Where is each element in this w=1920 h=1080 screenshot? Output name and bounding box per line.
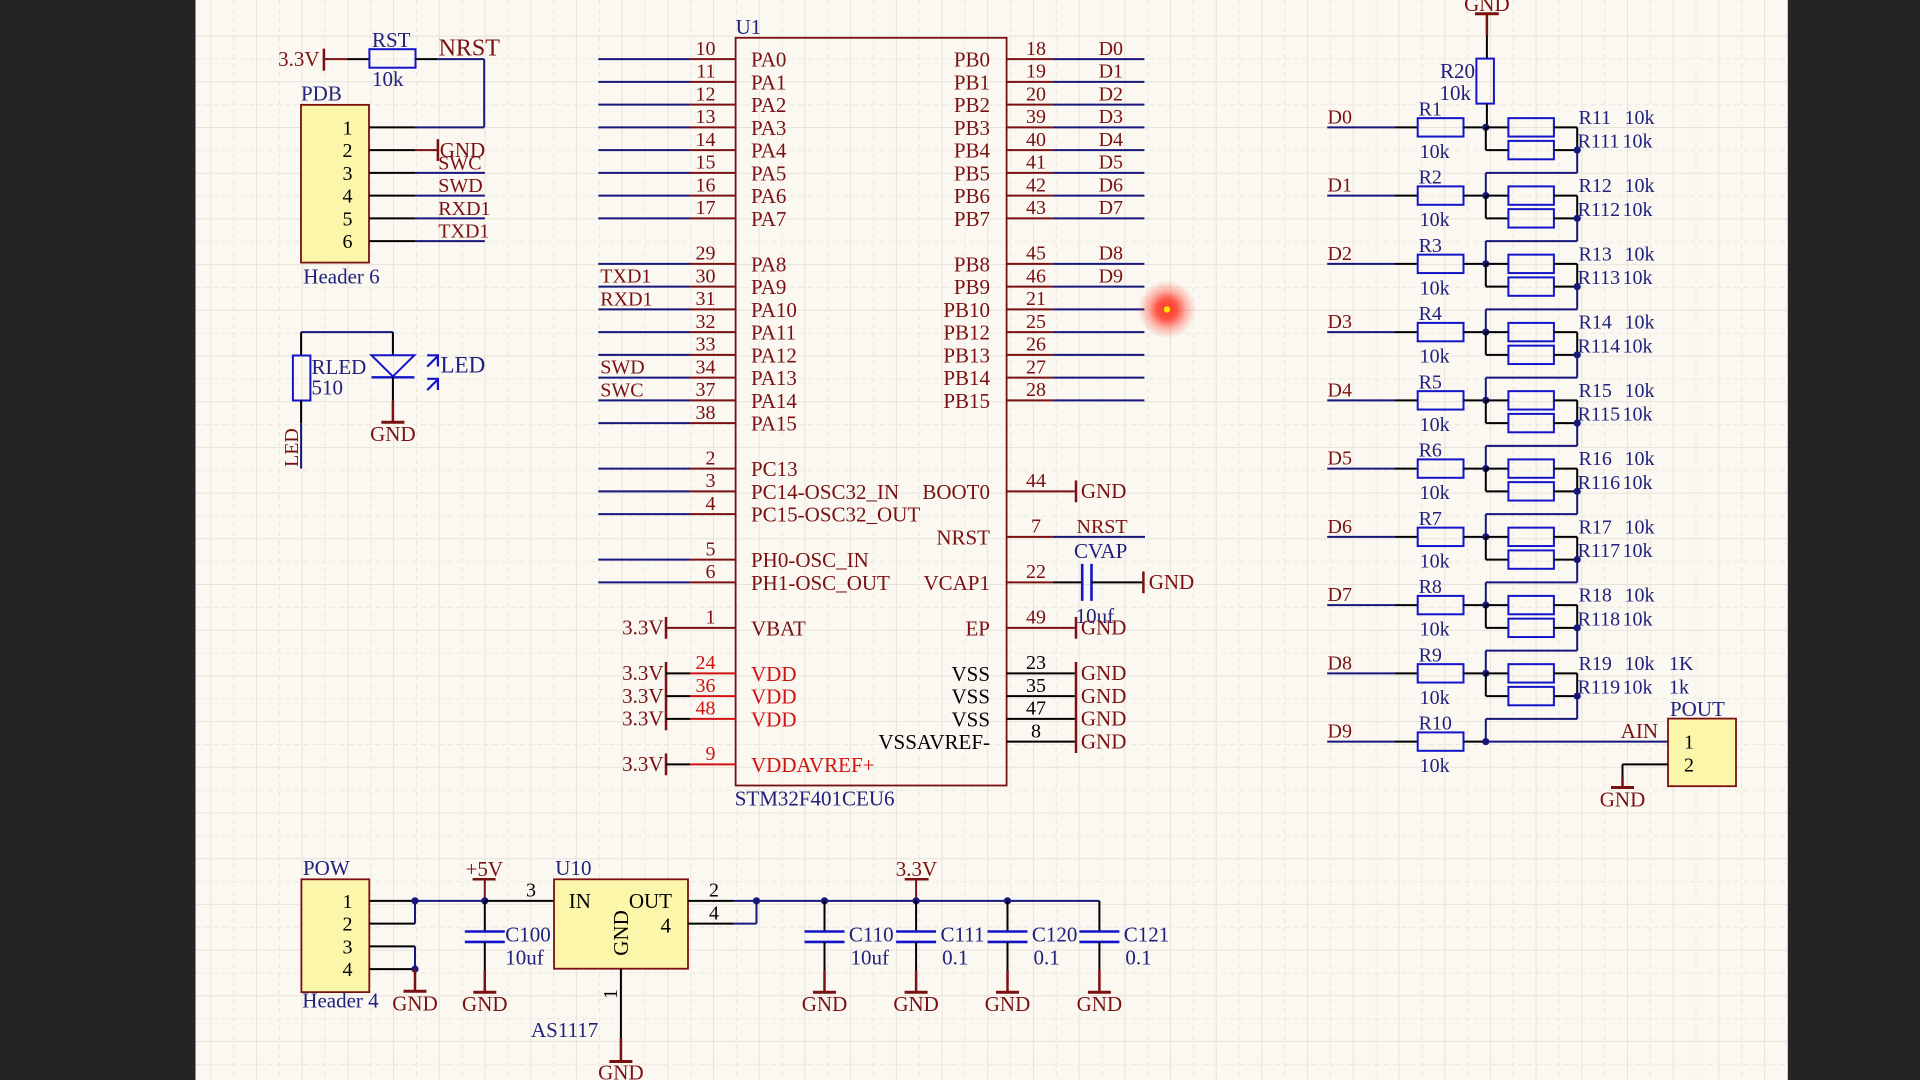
- svg-text:18: 18: [1026, 38, 1046, 60]
- wire R5 to junction: [1464, 399, 1486, 401]
- svg-text:3.3V: 3.3V: [622, 707, 663, 731]
- svg-text:10k: 10k: [1623, 608, 1653, 630]
- junction node D5: [1482, 465, 1489, 472]
- U1 pin 14 (PA4): [690, 129, 787, 163]
- U1 pin 6 (PH1-OSC_OUT): [690, 561, 890, 595]
- PDB pin 1: [343, 117, 416, 139]
- wire to U1 left pin: [598, 149, 690, 151]
- wire to U1 left pin: [598, 377, 690, 379]
- svg-text:D9: D9: [1328, 721, 1352, 743]
- resistor R118 10k: [1508, 619, 1554, 637]
- svg-text:3: 3: [343, 163, 353, 185]
- wire D6 to R7: [1327, 536, 1418, 538]
- label R119 10k: [1578, 677, 1690, 699]
- U1 pin 17 (PA7): [690, 197, 786, 231]
- svg-text:PH1-OSC_OUT: PH1-OSC_OUT: [751, 571, 890, 595]
- wire R9 to junction: [1464, 672, 1486, 674]
- connector PDB Header 6 body: [301, 82, 380, 289]
- svg-text:C111: C111: [941, 923, 985, 947]
- svg-text:GND: GND: [462, 992, 508, 1016]
- wire to U1 left pin: [598, 354, 690, 356]
- capacitor C100 10uf: [465, 901, 551, 970]
- connector POUT body: [1668, 697, 1736, 786]
- svg-text:R4: R4: [1419, 303, 1442, 325]
- label R16 10k: [1579, 448, 1655, 470]
- svg-text:STM32F401CEU6: STM32F401CEU6: [735, 787, 895, 811]
- svg-text:RXD1: RXD1: [438, 198, 490, 220]
- net label D9: [1099, 265, 1123, 287]
- junction node D0: [1482, 124, 1489, 131]
- resistor R9 10k: [1418, 644, 1464, 709]
- svg-text:+5V: +5V: [466, 857, 504, 881]
- svg-text:GND: GND: [1081, 729, 1127, 753]
- wire D3 to R4: [1327, 331, 1418, 333]
- svg-text:D7: D7: [1328, 584, 1352, 606]
- svg-text:PC13: PC13: [751, 457, 798, 481]
- svg-text:C120: C120: [1032, 923, 1078, 947]
- wire R20 to ladder: [1486, 104, 1488, 128]
- U1 pin 30 (PA9): [690, 265, 786, 299]
- svg-text:1: 1: [343, 117, 353, 139]
- svg-text:10k: 10k: [1420, 619, 1450, 641]
- junction node D6: [1482, 533, 1489, 540]
- junction node D3: [1482, 329, 1489, 336]
- GND port at CVAP: [1092, 570, 1195, 594]
- svg-text:PB12: PB12: [943, 321, 990, 345]
- svg-text:0.1: 0.1: [1125, 946, 1151, 970]
- U1 pin 11 (PA1): [690, 61, 786, 95]
- svg-text:PH0-OSC_IN: PH0-OSC_IN: [751, 548, 869, 572]
- svg-text:10k: 10k: [1623, 199, 1653, 221]
- wire GND to R20: [1486, 36, 1488, 59]
- U1 pin 40 (PB4): [954, 129, 1145, 163]
- svg-text:12: 12: [696, 83, 716, 105]
- svg-text:19: 19: [1026, 61, 1046, 83]
- ground at U10: [598, 1038, 644, 1080]
- U1 pin 36 (VDD): [690, 675, 797, 709]
- svg-text:10k: 10k: [1623, 267, 1653, 289]
- wire AIN (D9 junction to POUT): [1486, 741, 1668, 743]
- GND port at PDB pin 2: [415, 138, 485, 162]
- net label D8: [1099, 243, 1123, 265]
- error highlight marker: [1138, 280, 1196, 338]
- svg-text:35: 35: [1026, 675, 1046, 697]
- svg-text:VSS: VSS: [951, 685, 990, 709]
- svg-text:SWD: SWD: [600, 357, 644, 379]
- junction at C120: [1004, 897, 1011, 904]
- U1 pin 21 (PB10): [943, 288, 1144, 322]
- resistor R2 10k: [1418, 167, 1464, 232]
- svg-text:POUT: POUT: [1670, 697, 1725, 721]
- junction node 2R row 4: [1574, 420, 1581, 427]
- svg-text:PA13: PA13: [751, 366, 797, 390]
- svg-text:0.1: 0.1: [942, 946, 968, 970]
- svg-text:PA0: PA0: [751, 48, 786, 72]
- svg-text:AS1117: AS1117: [531, 1018, 598, 1042]
- power port 3.3V: [622, 616, 690, 640]
- U1 pin 41 (PB5): [954, 152, 1145, 186]
- wire 2R right links row 3: [1554, 332, 1577, 355]
- svg-text:PB1: PB1: [954, 70, 990, 94]
- wire PDB (RXD1): [415, 217, 485, 219]
- svg-text:PB13: PB13: [943, 343, 990, 367]
- svg-text:11: 11: [696, 61, 715, 83]
- svg-text:29: 29: [696, 243, 716, 265]
- svg-text:16: 16: [696, 174, 716, 196]
- net label AIN: [1621, 719, 1658, 743]
- wire link to next rung 2: [1486, 287, 1577, 333]
- svg-text:RXD1: RXD1: [600, 288, 652, 310]
- junction at U10 OUT: [753, 897, 760, 904]
- svg-text:36: 36: [696, 675, 716, 697]
- svg-text:PB0: PB0: [954, 48, 990, 72]
- junction node 2R row 8: [1574, 693, 1581, 700]
- svg-text:D7: D7: [1099, 197, 1123, 219]
- resistor R14 10k: [1508, 323, 1554, 341]
- svg-text:R115: R115: [1578, 404, 1621, 426]
- svg-text:NRST: NRST: [936, 525, 990, 549]
- svg-text:GND: GND: [1081, 707, 1127, 731]
- svg-text:R17: R17: [1579, 516, 1612, 538]
- wire 2R right links row 0: [1554, 127, 1577, 150]
- wire RLED to LED net: [300, 401, 302, 469]
- POW pin 3: [343, 936, 416, 958]
- svg-text:GND: GND: [1081, 684, 1127, 708]
- net label TXD1: [438, 221, 489, 243]
- svg-text:R117: R117: [1578, 540, 1621, 562]
- svg-text:10k: 10k: [1625, 107, 1655, 129]
- net label D7 (ladder): [1328, 584, 1352, 606]
- svg-text:10k: 10k: [1623, 472, 1653, 494]
- junction node 2R row 1: [1574, 215, 1581, 222]
- svg-text:3.3V: 3.3V: [622, 661, 663, 685]
- svg-text:10k: 10k: [1420, 755, 1450, 777]
- wire R10 to junction: [1464, 741, 1486, 743]
- U1 pin 7 (NRST): [936, 516, 1145, 550]
- net label RXD1: [600, 288, 652, 310]
- U1 pin 23 (VSS) with GND port: [951, 652, 1126, 686]
- wire to U1 left pin: [598, 331, 690, 333]
- U1 pin 43 (PB7): [954, 197, 1145, 231]
- svg-text:10k: 10k: [1625, 243, 1655, 265]
- svg-text:GND: GND: [893, 992, 939, 1016]
- svg-text:10k: 10k: [372, 67, 404, 91]
- svg-text:R7: R7: [1419, 508, 1442, 530]
- svg-text:10k: 10k: [1625, 585, 1655, 607]
- svg-text:42: 42: [1026, 174, 1046, 196]
- resistor R114 10k: [1508, 346, 1554, 364]
- wire to U1 left pin: [598, 217, 690, 219]
- svg-text:PA9: PA9: [751, 275, 786, 299]
- ground at POW: [392, 969, 438, 1015]
- svg-text:3.3V: 3.3V: [622, 616, 663, 640]
- U1 pin 10 (PA0): [690, 38, 786, 72]
- junction node D7: [1482, 602, 1489, 609]
- resistor R113 10k: [1508, 277, 1554, 295]
- U1 pin 46 (PB9): [954, 265, 1145, 299]
- label R116 10k: [1578, 472, 1653, 494]
- svg-text:10k: 10k: [1440, 81, 1472, 105]
- U1 pin 8 (VSSAVREF-) with GND port: [878, 720, 1126, 754]
- U1 pin 12 (PA2): [690, 83, 786, 117]
- svg-text:PA14: PA14: [751, 389, 797, 413]
- U1 pin 24 (VDD): [690, 652, 797, 686]
- wire D7 to R8: [1327, 604, 1418, 606]
- svg-text:10k: 10k: [1625, 516, 1655, 538]
- wire link to next rung 3: [1486, 355, 1577, 401]
- wire 2R right links row 5: [1554, 469, 1577, 492]
- svg-text:SWC: SWC: [438, 152, 481, 174]
- U1 pin 37 (PA14): [690, 379, 797, 413]
- wire to U1 left pin: [598, 172, 690, 174]
- svg-text:1: 1: [343, 891, 353, 913]
- svg-text:VSS: VSS: [951, 707, 990, 731]
- svg-text:30: 30: [696, 265, 716, 287]
- wire D5 to R6: [1327, 468, 1418, 470]
- capacitor CVAP 10uf: [1074, 539, 1127, 628]
- svg-text:41: 41: [1026, 152, 1046, 174]
- svg-text:10k: 10k: [1623, 404, 1653, 426]
- wire junction to 2R pair row 5: [1486, 469, 1509, 492]
- wire R2 to junction: [1464, 195, 1486, 197]
- wire 2R right links row 7: [1554, 605, 1577, 628]
- U1 pin 42 (PB6): [954, 174, 1145, 208]
- svg-text:D3: D3: [1328, 311, 1352, 333]
- wire to U1 left pin: [598, 513, 690, 515]
- net label D2: [1099, 83, 1123, 105]
- svg-text:4: 4: [706, 493, 716, 515]
- svg-text:PB15: PB15: [943, 389, 990, 413]
- resistor R117 10k: [1508, 550, 1554, 568]
- wire +5V to U10 IN: [485, 900, 554, 902]
- PDB pin 5: [343, 208, 416, 230]
- svg-text:CVAP: CVAP: [1074, 539, 1127, 563]
- ground at R20 (top): [1464, 0, 1510, 36]
- svg-text:GND: GND: [392, 992, 438, 1016]
- svg-text:D3: D3: [1099, 106, 1123, 128]
- junction node 2R row 5: [1574, 488, 1581, 495]
- svg-text:2: 2: [343, 140, 353, 162]
- U10 pin 2 (OUT): [688, 880, 757, 902]
- svg-text:10k: 10k: [1625, 448, 1655, 470]
- net label D4 (ladder): [1328, 379, 1352, 401]
- svg-text:15: 15: [696, 152, 716, 174]
- svg-text:2: 2: [1684, 754, 1694, 776]
- wire PDB (SWC): [415, 172, 485, 174]
- power port 3.3V: [622, 661, 690, 685]
- svg-text:GND: GND: [802, 992, 848, 1016]
- POW pin 1: [343, 891, 416, 913]
- wire LED rail: [301, 332, 393, 355]
- svg-text:R13: R13: [1579, 243, 1612, 265]
- net label RXD1: [438, 198, 490, 220]
- wire to U1 left pin: [598, 468, 690, 470]
- wire D2 to R3: [1327, 263, 1418, 265]
- U1 pin 2 (PC13): [690, 447, 798, 481]
- svg-text:PA7: PA7: [751, 207, 786, 231]
- svg-text:1K: 1K: [1669, 653, 1694, 675]
- ground at LED: [370, 401, 416, 446]
- svg-text:10k: 10k: [1420, 346, 1450, 368]
- svg-text:PB7: PB7: [954, 207, 990, 231]
- U1 pin 18 (PB0): [954, 38, 1145, 72]
- svg-text:D5: D5: [1328, 448, 1352, 470]
- svg-text:R119: R119: [1578, 677, 1621, 699]
- svg-text:GND: GND: [1081, 616, 1127, 640]
- wire to U1 left pin: [598, 308, 690, 310]
- svg-text:27: 27: [1026, 356, 1046, 378]
- PDB pin 6: [343, 231, 416, 253]
- svg-text:10k: 10k: [1420, 414, 1450, 436]
- wire R8 to junction: [1464, 604, 1486, 606]
- wire junction to 2R pair row 8: [1486, 673, 1509, 696]
- U1 pin 5 (PH0-OSC_IN): [690, 538, 869, 572]
- svg-text:45: 45: [1026, 243, 1046, 265]
- wire 2R right links row 4: [1554, 400, 1577, 423]
- net label D4: [1099, 129, 1123, 151]
- svg-text:R3: R3: [1419, 235, 1442, 257]
- svg-text:C121: C121: [1124, 923, 1170, 947]
- svg-text:2: 2: [709, 880, 719, 902]
- junction node 2R row 0: [1574, 147, 1581, 154]
- wire to U1 left pin: [598, 81, 690, 83]
- svg-text:LED: LED: [441, 353, 486, 378]
- resistor R115 10k: [1508, 414, 1554, 432]
- svg-text:PB6: PB6: [954, 184, 990, 208]
- wire R1 to junction: [1464, 126, 1486, 128]
- wire to U1 left pin: [598, 104, 690, 106]
- svg-text:1: 1: [1684, 732, 1694, 754]
- svg-text:VBAT: VBAT: [751, 616, 806, 640]
- U10 pin 4: [688, 901, 757, 924]
- svg-text:D2: D2: [1099, 83, 1123, 105]
- net label SWC: [600, 379, 643, 401]
- svg-text:OUT: OUT: [629, 889, 672, 913]
- wire 2R right links row 6: [1554, 537, 1577, 560]
- svg-text:NRST: NRST: [1077, 516, 1128, 538]
- wire junction to 2R pair row 4: [1486, 400, 1509, 423]
- svg-text:R113: R113: [1578, 267, 1621, 289]
- svg-text:R16: R16: [1579, 448, 1612, 470]
- net label D8 (ladder): [1328, 652, 1352, 674]
- U1 pin 20 (PB2): [954, 83, 1145, 117]
- svg-text:510: 510: [312, 375, 344, 399]
- svg-text:34: 34: [696, 356, 716, 378]
- svg-text:1: 1: [600, 989, 622, 999]
- wire D0 to R1: [1327, 126, 1418, 128]
- svg-text:R111: R111: [1578, 131, 1620, 153]
- svg-text:SWC: SWC: [600, 379, 643, 401]
- svg-text:48: 48: [696, 698, 716, 720]
- capacitor C120 0.1: [988, 901, 1078, 970]
- svg-text:R8: R8: [1419, 576, 1442, 598]
- svg-text:4: 4: [343, 186, 353, 208]
- U10 pin 1 (GND): [600, 969, 622, 1038]
- svg-text:C100: C100: [505, 923, 551, 947]
- U10 pin 3 number: [526, 880, 536, 902]
- svg-text:6: 6: [343, 231, 353, 253]
- svg-text:NRST: NRST: [439, 36, 501, 62]
- junction at +5V: [481, 897, 488, 904]
- svg-text:TXD1: TXD1: [438, 221, 489, 243]
- svg-text:POW: POW: [303, 856, 350, 880]
- svg-text:3: 3: [526, 880, 536, 902]
- resistor R16 10k: [1508, 459, 1554, 477]
- U1 pin 34 (PA13): [690, 356, 797, 390]
- svg-text:3: 3: [343, 936, 353, 958]
- svg-text:37: 37: [696, 379, 716, 401]
- svg-text:13: 13: [696, 106, 716, 128]
- svg-text:R118: R118: [1578, 608, 1621, 630]
- svg-text:D8: D8: [1099, 243, 1123, 265]
- wire R4 to junction: [1464, 331, 1486, 333]
- wire junction to 2R pair row 7: [1486, 605, 1509, 628]
- svg-text:4: 4: [661, 914, 672, 938]
- net label D0 (ladder): [1328, 106, 1352, 128]
- svg-text:14: 14: [696, 129, 716, 151]
- diode LED: [371, 353, 485, 391]
- wire link to next rung 5: [1486, 491, 1577, 536]
- svg-text:VDD: VDD: [751, 707, 797, 731]
- label R14 10k: [1579, 312, 1655, 334]
- net label D3 (ladder): [1328, 311, 1352, 333]
- net label D2 (ladder): [1328, 243, 1352, 265]
- svg-text:10uf: 10uf: [505, 946, 544, 970]
- svg-text:25: 25: [1026, 311, 1046, 333]
- junction node 2R row 7: [1574, 624, 1581, 631]
- junction node 2R row 6: [1574, 556, 1581, 563]
- U1 pin 44 (BOOT0) with GND port: [922, 470, 1126, 504]
- resistor R12 10k: [1508, 186, 1554, 204]
- U1 pin 32 (PA11): [690, 311, 796, 345]
- wire junction to 2R pair row 2: [1486, 264, 1509, 287]
- svg-text:6: 6: [706, 561, 716, 583]
- regulator U10 AS1117 body: [531, 856, 688, 1042]
- svg-text:R10: R10: [1419, 713, 1452, 735]
- junction node D1: [1482, 192, 1489, 199]
- wire D4 to R5: [1327, 399, 1418, 401]
- PDB pin 3: [343, 163, 416, 185]
- resistor R10 10k: [1418, 713, 1464, 778]
- wire to U1 left pin: [598, 581, 690, 583]
- U1 pin 48 (VDD): [690, 698, 797, 732]
- svg-text:PA1: PA1: [751, 70, 786, 94]
- resistor RLED 510: [293, 355, 366, 401]
- svg-text:3.3V: 3.3V: [278, 47, 319, 71]
- svg-text:R5: R5: [1419, 371, 1442, 393]
- wire POW pin2 link: [414, 901, 416, 924]
- wire to U1 left pin: [598, 58, 690, 60]
- svg-text:GND: GND: [1077, 992, 1123, 1016]
- label R17 10k: [1579, 516, 1655, 538]
- U1 pin 31 (PA10): [690, 288, 797, 322]
- svg-text:7: 7: [1031, 516, 1041, 538]
- wire 2R right links row 2: [1554, 264, 1577, 287]
- wire 2R right links row 8: [1554, 673, 1577, 696]
- wire to U1 left pin: [598, 490, 690, 492]
- svg-text:R114: R114: [1578, 335, 1621, 357]
- U1 pin 3 (PC14-OSC32_IN): [690, 470, 899, 504]
- svg-text:GND: GND: [1081, 661, 1127, 685]
- resistor R15 10k: [1508, 391, 1554, 409]
- wire to U1 left pin: [598, 286, 690, 288]
- ground at C100: [462, 970, 508, 1016]
- resistor R7 10k: [1418, 508, 1464, 573]
- label R114 10k: [1578, 335, 1653, 357]
- U1 pin 49 (EP) with GND port: [965, 607, 1126, 641]
- svg-text:PC14-OSC32_IN: PC14-OSC32_IN: [751, 480, 899, 504]
- svg-text:AIN: AIN: [1621, 719, 1658, 743]
